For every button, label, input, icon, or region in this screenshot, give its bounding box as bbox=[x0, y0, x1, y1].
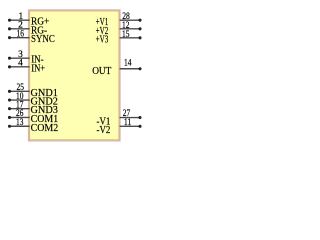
pin 15 terminal dot bbox=[138, 36, 141, 39]
wire pin 14 bbox=[120, 67, 140, 71]
wire pin 4 bbox=[9, 65, 29, 69]
svg-text:4: 4 bbox=[18, 59, 23, 69]
pin 10 terminal dot bbox=[8, 98, 11, 101]
svg-text:16: 16 bbox=[16, 30, 24, 40]
wire pin 16 bbox=[9, 36, 29, 40]
svg-text:14: 14 bbox=[124, 59, 132, 69]
pin 16 terminal dot bbox=[8, 36, 11, 39]
pin 12 terminal dot bbox=[138, 27, 141, 30]
pin 26 terminal dot bbox=[8, 116, 11, 119]
wire pin 13 bbox=[9, 124, 29, 128]
wire pin 10 bbox=[9, 98, 29, 102]
svg-text:SYNC: SYNC bbox=[31, 34, 55, 45]
pin 3 terminal dot bbox=[8, 57, 11, 60]
wire pin 17 bbox=[9, 107, 29, 111]
wire pin 2 bbox=[9, 27, 29, 31]
svg-text:15: 15 bbox=[122, 30, 130, 40]
wire pin 27 bbox=[120, 115, 140, 119]
pin 13 terminal dot bbox=[8, 125, 11, 128]
pin 25 terminal dot bbox=[8, 90, 11, 93]
pin 28 terminal dot bbox=[138, 19, 141, 22]
wire pin 1 bbox=[9, 18, 29, 22]
svg-text:+V3: +V3 bbox=[96, 35, 109, 46]
pin 1 terminal dot bbox=[8, 19, 11, 22]
IC body inner border edge bbox=[30, 11, 119, 140]
wire pin 15 bbox=[120, 36, 140, 40]
svg-text:13: 13 bbox=[16, 118, 24, 128]
pin 17 terminal dot bbox=[8, 107, 11, 110]
wire pin 25 bbox=[9, 89, 29, 93]
svg-text:11: 11 bbox=[124, 118, 132, 128]
svg-text:OUT: OUT bbox=[92, 66, 111, 77]
wire pin 11 bbox=[120, 124, 140, 128]
svg-text:COM2: COM2 bbox=[31, 123, 59, 134]
pin 4 terminal dot bbox=[8, 65, 11, 68]
wire pin 26 bbox=[9, 115, 29, 119]
pin 14 terminal dot bbox=[138, 67, 141, 70]
op-amp IC body U1 (28-pin instrumentation amplifier symbol) bbox=[28, 10, 120, 141]
pin 11 terminal dot bbox=[138, 125, 141, 128]
pin 2 terminal dot bbox=[8, 27, 11, 30]
svg-text:-V2: -V2 bbox=[96, 125, 110, 136]
pin 27 terminal dot bbox=[138, 116, 141, 119]
svg-text:IN+: IN+ bbox=[31, 63, 45, 74]
wire pin 3 bbox=[9, 56, 29, 60]
wire pin 28 bbox=[120, 18, 140, 22]
wire pin 12 bbox=[120, 27, 140, 31]
